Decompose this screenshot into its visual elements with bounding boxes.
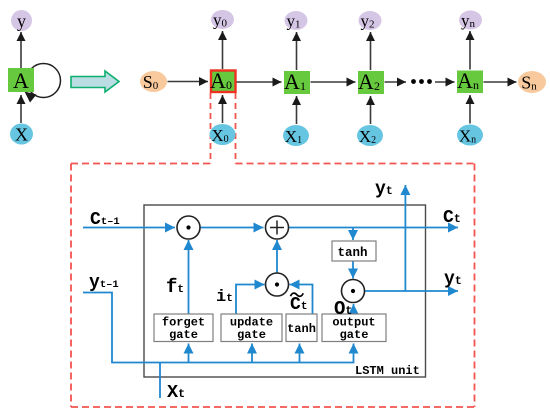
node Sn bbox=[518, 71, 546, 93]
output gate box bbox=[322, 314, 386, 342]
node yn bbox=[459, 11, 482, 31]
wire: update gate up and right into product bbox=[236, 285, 265, 315]
node A (green square) bbox=[8, 68, 34, 93]
svg-text:X: X bbox=[15, 125, 28, 145]
node y0 bbox=[211, 10, 234, 30]
wire: A0 to y0 bbox=[222, 31, 224, 69]
wire: A2 to y2 bbox=[370, 32, 372, 70]
node An bbox=[457, 68, 483, 93]
update gate box bbox=[221, 314, 282, 342]
svg-text:gate: gate bbox=[169, 328, 198, 342]
wire: xt input bbox=[159, 363, 161, 399]
wire: ellipsis to An bbox=[435, 81, 455, 83]
node X1 bbox=[283, 125, 309, 146]
wire: forget product to plus bbox=[200, 227, 264, 229]
wire: tanh gate up and left into product bbox=[290, 285, 313, 315]
red dashed drop line right bbox=[235, 93, 237, 164]
red dashed drop line left bbox=[210, 93, 212, 164]
node y1 bbox=[285, 11, 308, 31]
node A1 bbox=[284, 69, 310, 94]
wire: A0 to A1 bbox=[237, 81, 282, 83]
wire: C t-1 into forget product bbox=[83, 227, 175, 229]
node X (blue ellipse) bbox=[10, 124, 33, 145]
label C~t bbox=[290, 293, 307, 315]
svg-text:tanh: tanh bbox=[287, 322, 316, 336]
wire: feed branch tanh bbox=[299, 344, 301, 363]
forget gate box bbox=[154, 314, 213, 342]
svg-text:y: y bbox=[17, 11, 26, 31]
wire: S0 to A0 bbox=[168, 81, 209, 83]
wire: An to Sn bbox=[484, 81, 517, 83]
wire: branch down into tanh box bbox=[352, 228, 354, 241]
wire: forget gate up into product bbox=[188, 240, 190, 314]
wire: tanh box to output product bbox=[352, 261, 354, 279]
ellipsis dots bbox=[411, 79, 432, 84]
wire: output gate up into product bbox=[353, 304, 355, 313]
node y (purple ellipse) bbox=[11, 10, 32, 31]
tanh gate box bbox=[286, 314, 317, 342]
wire: A2 to ellipsis bbox=[385, 81, 407, 83]
wire: Xn to An bbox=[469, 95, 471, 124]
wire: X2 to A2 bbox=[370, 96, 372, 124]
tanh box top bbox=[332, 241, 376, 261]
wire: update product up into plus bbox=[276, 240, 278, 273]
product node update bbox=[266, 273, 289, 296]
svg-text:gate: gate bbox=[237, 328, 266, 342]
node y2 bbox=[359, 11, 382, 31]
wire: A1 to A2 bbox=[311, 81, 356, 83]
node A2 bbox=[358, 69, 384, 94]
svg-text:LSTM unit: LSTM unit bbox=[355, 364, 420, 378]
wire: feed branch update bbox=[251, 344, 253, 363]
red dashed zoom box bbox=[71, 164, 475, 408]
node A0 (green square, red highlight border) bbox=[210, 68, 235, 93]
node S0 (orange ellipse) bbox=[140, 71, 167, 92]
svg-text:A: A bbox=[13, 68, 29, 93]
node X2 bbox=[357, 125, 383, 146]
wire: A1 to y1 bbox=[296, 32, 298, 70]
wire: arrow X to A bbox=[20, 95, 22, 123]
wire: X0 to A0 bbox=[222, 95, 224, 123]
svg-text:gate: gate bbox=[340, 328, 369, 342]
product node output bbox=[342, 280, 365, 303]
node X0 bbox=[210, 124, 236, 145]
big cyan unroll arrow bbox=[71, 71, 119, 92]
wire: feed branch forget bbox=[188, 344, 190, 363]
wire: An to yn bbox=[469, 31, 471, 70]
wire: X1 to A1 bbox=[296, 96, 298, 124]
wire: self-loop on A bbox=[25, 64, 61, 103]
node Xn bbox=[457, 125, 483, 146]
wire: output product to yt right bbox=[365, 290, 458, 292]
wire: yt branch up bbox=[404, 185, 406, 291]
wire: arrow A to y bbox=[20, 32, 22, 68]
sum node bbox=[266, 216, 289, 239]
wire: y t-1 feed line bbox=[83, 293, 354, 363]
wire: plus to Ct output bbox=[289, 227, 459, 229]
LSTM unit outer box bbox=[144, 205, 426, 377]
svg-text:tanh: tanh bbox=[337, 246, 367, 260]
product node forget bbox=[177, 216, 200, 239]
